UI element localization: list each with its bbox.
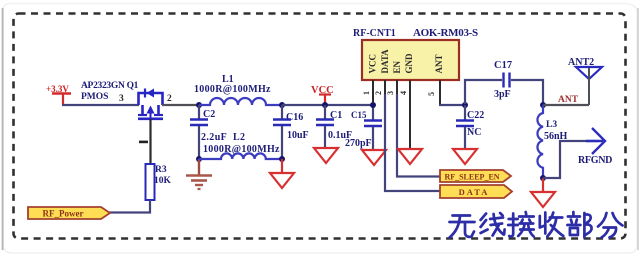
svg-text:1: 1 <box>362 91 371 95</box>
node C2 bottom <box>196 156 202 162</box>
svg-text:RF-CNT1: RF-CNT1 <box>353 28 396 39</box>
svg-text:4: 4 <box>399 91 408 95</box>
wire ANT net <box>543 95 589 105</box>
svg-text:RFGND: RFGND <box>578 155 612 166</box>
ground pin4 <box>398 149 422 164</box>
node VCC <box>322 102 328 108</box>
power VCC <box>311 85 334 105</box>
svg-text:RF_SLEEP_EN: RF_SLEEP_EN <box>444 173 499 182</box>
wire node B to VCC node <box>282 104 373 106</box>
svg-text:270pF: 270pF <box>345 138 372 149</box>
svg-text:EN: EN <box>392 60 402 73</box>
node pin1/VCC rail end <box>370 102 376 108</box>
svg-text:GND: GND <box>404 53 414 74</box>
earth ground <box>186 159 212 189</box>
capacitor C2 <box>190 105 245 159</box>
capacitor C1 <box>316 105 352 148</box>
pin 2 <box>167 94 172 104</box>
ground C1 <box>314 148 338 163</box>
svg-text:2: 2 <box>167 94 172 104</box>
svg-text:C17: C17 <box>494 60 512 71</box>
wire Q1 pin2 to node A <box>162 104 199 106</box>
RFGND arrow <box>578 128 612 166</box>
node L3 bottom <box>540 175 546 181</box>
node B <box>279 102 285 108</box>
port DATA <box>440 185 512 198</box>
svg-text:RF_Power: RF_Power <box>43 209 84 219</box>
inductor L3 <box>537 105 567 178</box>
power +3.3V <box>46 84 71 105</box>
svg-text:AOK-RM03-S: AOK-RM03-S <box>413 27 478 39</box>
svg-text:NC: NC <box>467 127 481 138</box>
svg-text:10K: 10K <box>154 176 172 186</box>
capacitor C15 <box>345 105 382 150</box>
wire +3.3V to Q1 pin3 <box>62 104 139 106</box>
inductor L2 <box>199 144 282 159</box>
port RF_SLEEP_EN <box>440 170 511 182</box>
svg-text:R3: R3 <box>155 165 167 175</box>
svg-text:3: 3 <box>119 94 124 104</box>
pin 3 <box>119 94 124 104</box>
resistor R3 <box>146 164 172 200</box>
svg-text:+3.3V: +3.3V <box>46 84 69 94</box>
pin 5 ANT stub and wire <box>427 80 465 105</box>
ground C22 <box>453 149 477 164</box>
capacitor C22 <box>456 105 484 149</box>
svg-text:2.2uF L2: 2.2uF L2 <box>201 132 245 143</box>
ground L3 <box>531 178 555 207</box>
pin 1 of Q1 (rotated) <box>139 141 148 144</box>
transistor Q1 AP2323GN PMOS <box>81 81 163 119</box>
wire to RFGND <box>543 141 598 178</box>
svg-text:10uF: 10uF <box>287 130 309 141</box>
svg-text:5: 5 <box>427 92 436 96</box>
wire R3 to RF_Power <box>109 200 150 213</box>
module U RF-CNT1 AOK-RM03-S <box>353 27 478 80</box>
svg-text:C16: C16 <box>286 112 303 123</box>
port RF_Power <box>28 207 110 219</box>
svg-text:ANT: ANT <box>558 95 579 105</box>
svg-text:3: 3 <box>386 91 395 95</box>
node A <box>196 102 202 108</box>
svg-text:VCC: VCC <box>368 54 378 74</box>
pin 1 VCC stub <box>362 80 373 103</box>
svg-text:1000R@100MHz: 1000R@100MHz <box>194 84 271 95</box>
pin 3 EN stub and wire to RF_SLEEP_EN port <box>386 80 440 177</box>
node ANT <box>540 102 546 108</box>
svg-text:2: 2 <box>374 91 383 95</box>
pin 4 GND stub <box>399 80 410 149</box>
inductor L1 <box>194 74 282 105</box>
svg-text:PMOS: PMOS <box>81 92 108 102</box>
svg-text:DATA: DATA <box>459 187 490 197</box>
node pin5/C22 <box>462 102 468 108</box>
pin 2 DATA stub and wire to DATA port <box>374 80 440 191</box>
antenna ANT2 <box>568 57 602 105</box>
capacitor C16 <box>273 105 309 159</box>
title 无线接收部分 <box>450 212 623 238</box>
node C16 bottom <box>279 156 285 162</box>
svg-text:ANT: ANT <box>434 54 444 73</box>
capacitor C17 and wires <box>465 60 543 104</box>
svg-text:1000R@100MHz: 1000R@100MHz <box>203 144 280 155</box>
svg-text:C15: C15 <box>351 110 367 120</box>
svg-text:DATA: DATA <box>380 49 390 74</box>
svg-text:AP2323GN Q1: AP2323GN Q1 <box>81 81 139 91</box>
svg-text:3pF: 3pF <box>494 89 511 100</box>
wire Q1 gate to R3 <box>149 119 151 164</box>
ground C15 <box>362 150 386 165</box>
ground C16 <box>270 159 294 188</box>
svg-text:L3: L3 <box>546 120 557 130</box>
